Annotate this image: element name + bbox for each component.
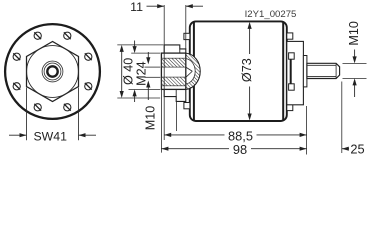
dim 11 xyxy=(185,5,187,49)
left lug bottom xyxy=(184,103,190,109)
svg-text:M10: M10 xyxy=(143,106,157,131)
left lug top xyxy=(184,33,190,39)
thread hatch band top xyxy=(161,58,185,67)
dome thread shell (hatched) xyxy=(186,53,200,89)
body seam right xyxy=(282,22,284,120)
hex inscribed circle xyxy=(27,46,79,98)
thread hatch band bottom xyxy=(161,77,185,86)
shaft M10 xyxy=(307,63,340,78)
motor body outline xyxy=(190,21,287,121)
mounting plate (stepped pair) xyxy=(164,45,186,102)
dim diameter 73 xyxy=(249,25,251,54)
stub face extension line xyxy=(160,89,162,152)
dim 98 xyxy=(161,148,229,150)
threaded dome tip xyxy=(186,53,200,89)
svg-text:M24: M24 xyxy=(134,61,148,86)
right lug top xyxy=(287,33,293,39)
bearing hub boss xyxy=(303,56,307,87)
right cap extension line xyxy=(306,106,308,155)
bearing hub face xyxy=(290,59,292,83)
dim M24 xyxy=(131,52,160,54)
front view: flange outer circle xyxy=(5,24,100,119)
svg-text:M10: M10 xyxy=(347,21,361,46)
plate foot extension line xyxy=(176,101,178,131)
dim M10 right xyxy=(343,62,367,64)
threaded stub M24 body xyxy=(161,53,185,89)
svg-text:Ø73: Ø73 xyxy=(240,58,254,82)
dim 25 xyxy=(341,82,343,154)
dim M10 left xyxy=(145,66,161,68)
svg-text:98: 98 xyxy=(233,142,247,157)
SW41 dimension xyxy=(26,88,28,141)
body seam left xyxy=(193,22,195,120)
svg-text:25: 25 xyxy=(350,141,364,156)
mounting face extension line xyxy=(163,5,165,140)
8 slotted screws on bolt circle xyxy=(85,53,92,60)
svg-text:11: 11 xyxy=(130,0,143,14)
svg-text:Ø 40: Ø 40 xyxy=(121,58,135,85)
svg-text:I2Y1_00275: I2Y1_00275 xyxy=(245,9,297,20)
dim 88,5 xyxy=(164,134,224,136)
hex nut SW41 xyxy=(27,42,79,102)
right lug bottom xyxy=(287,104,293,110)
bore cone in dome xyxy=(186,67,193,71)
center shaft rings xyxy=(42,61,63,82)
rear end cap xyxy=(287,41,304,104)
svg-text:SW41: SW41 xyxy=(33,130,67,144)
cap screw boss lower xyxy=(289,84,295,90)
cap screw boss upper xyxy=(289,53,295,59)
dim diameter 40 xyxy=(117,44,163,46)
